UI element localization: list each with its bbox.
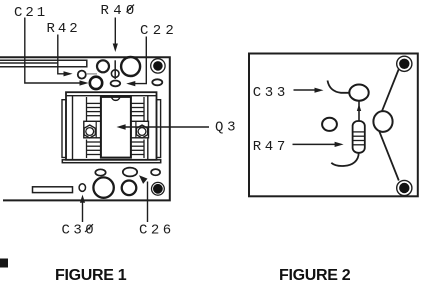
screw top-right of board 2: [397, 56, 412, 71]
svg-text:FIGURE 2: FIGURE 2: [279, 267, 351, 284]
capacitor C21 body (bold circle): [90, 77, 102, 89]
capacitor C33 lead curve: [328, 81, 350, 93]
wire from C33 to R47: [358, 100, 360, 122]
resistor R47 body: [353, 121, 365, 153]
large capacitor (top row): [121, 57, 140, 76]
scan artifact block bottom-left: [0, 259, 8, 268]
PCB board outline (Figure 2): [249, 54, 418, 197]
svg-text:C26: C26: [139, 223, 175, 239]
left mounting pad: [84, 121, 101, 138]
hex nut right: [136, 125, 147, 138]
V-notch upper trace: [382, 70, 399, 112]
leader arrow C33: [294, 89, 317, 91]
trace pad circle: [373, 111, 392, 132]
large capacitor bottom: [93, 177, 113, 197]
screw bottom-right of board 1: [152, 182, 165, 195]
pad oval (C22 target): [111, 81, 121, 87]
leader arrow R40 (down): [114, 18, 116, 45]
V-notch lower trace: [379, 131, 399, 180]
bottom connector strip: [33, 187, 73, 193]
free pad circle: [322, 118, 337, 131]
leader arrow C22 (left): [134, 37, 146, 84]
slashed zero of R40: [127, 5, 135, 13]
small resistor pad circle (R42 target): [78, 71, 86, 79]
faint lead from R42 pad: [86, 73, 97, 75]
svg-text:C33: C33: [253, 85, 289, 101]
svg-text:R47: R47: [253, 139, 289, 155]
svg-text:C21: C21: [14, 5, 48, 21]
heatsink bottom flange: [62, 160, 160, 163]
capacitor ring (top row, left): [97, 60, 109, 72]
screw bottom-right of board 2: [397, 180, 412, 195]
leader arrow C26 (up-left): [147, 182, 149, 223]
small hole C30: [79, 184, 85, 192]
leader arrow Q3 (long, left): [124, 126, 209, 128]
medium capacitor bottom (C26): [122, 181, 137, 196]
small pad oval right: [151, 169, 160, 175]
test point with lead (R40 target): [114, 60, 116, 79]
transistor notch: [112, 97, 120, 100]
heatsink fins right: [131, 97, 144, 158]
leader arrow C21: [25, 18, 80, 84]
PCB board outline (Figure 1): [0, 57, 170, 200]
wire below R47: [331, 153, 358, 166]
capacitor C33 body: [349, 85, 368, 101]
heatsink outer frame: [66, 92, 157, 160]
pad oval below screw: [152, 79, 162, 85]
heatsink fins left: [87, 97, 102, 158]
heatsink inner frame rails: [66, 96, 157, 160]
svg-text:Q3: Q3: [215, 119, 239, 135]
pad oval above large cap: [95, 169, 105, 175]
heatsink left tab: [62, 100, 66, 158]
svg-text:R42: R42: [47, 21, 81, 37]
leader arrow R42: [58, 35, 64, 74]
transistor Q3 body: [101, 97, 131, 158]
leader arrow R47: [293, 143, 337, 145]
slashed zero of C30: [85, 224, 93, 232]
heatsink right tab: [157, 100, 161, 158]
pad oval above medium cap: [123, 168, 137, 177]
screw top-right of board 1: [151, 59, 165, 73]
wire harness (ribbon) top-left: [0, 60, 87, 67]
hex nut left: [84, 125, 95, 138]
leader arrow C30 (up): [82, 201, 84, 222]
svg-text:FIGURE 1: FIGURE 1: [55, 267, 127, 284]
right mounting pad: [131, 121, 149, 138]
